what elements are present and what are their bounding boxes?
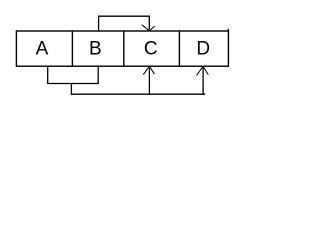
- divider C|D: [178, 31, 180, 66]
- box row outline: [16, 31, 228, 66]
- corner tick top-right of box row: [227, 29, 229, 32]
- riser wire into D bottom: [202, 67, 204, 95]
- divider A|B: [71, 31, 73, 66]
- svg-text:A: A: [36, 39, 49, 60]
- U wire under A-B: [48, 67, 98, 84]
- top loop wire B->C: [99, 16, 150, 30]
- arrowhead into C bottom: [143, 66, 154, 74]
- top arrowhead into C: [142, 25, 155, 31]
- svg-text:D: D: [196, 39, 210, 60]
- arrowhead into D bottom: [197, 66, 209, 75]
- divider B|C: [123, 31, 125, 66]
- riser wire into C bottom: [148, 67, 150, 94]
- branch wire down from U: [71, 84, 205, 94]
- svg-text:B: B: [89, 39, 102, 60]
- svg-text:C: C: [144, 39, 158, 60]
